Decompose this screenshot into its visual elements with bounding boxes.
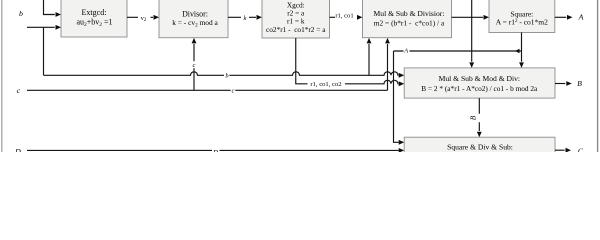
svg-text:c: c	[17, 86, 21, 95]
wire c up into Mul & Sub & Divisior	[387, 44, 389, 90]
svg-text:Extgcd:: Extgcd:	[82, 8, 107, 17]
svg-text:B = 2 * (a*r1 - A*co2) / co1 -: B = 2 * (a*r1 - A*co2) / co1 - b mod 2a	[421, 84, 538, 93]
svg-text:Mul & Sub & Mod & Div:: Mul & Sub & Mod & Div:	[439, 74, 520, 83]
svg-text:r1, co1, co2: r1, co1, co2	[310, 81, 341, 88]
box U5 Square	[489, 0, 555, 32]
wire r1 co1 from Xgcd to Mul & Sub & Divisior	[330, 16, 336, 18]
svg-text:D: D	[14, 147, 21, 152]
wire m2 from Mul & Sub & Divisior to Square	[452, 16, 484, 18]
wire D bus into Square & Div & Sub	[27, 149, 399, 151]
svg-text:v2: v2	[141, 15, 147, 23]
wire A feedback branch left	[394, 50, 522, 52]
svg-text:c: c	[232, 89, 235, 95]
wire k from Divisor to Xgcd	[228, 16, 256, 18]
svg-text:b: b	[19, 9, 23, 18]
wire A down to Square & Div & Sub	[394, 51, 399, 142]
wire c up into Divisor	[193, 44, 195, 90]
svg-text:co2*r1 - co1*r2 = a: co2*r1 - co1*r2 = a	[266, 25, 326, 34]
wire c bus horizontal	[27, 89, 388, 91]
wire b up into Mul & Sub & Divisior	[368, 44, 370, 75]
svg-text:B: B	[577, 79, 582, 88]
svg-text:D: D	[212, 149, 218, 152]
wire a from top into Mul & Sub & Mod & Div	[471, 0, 473, 62]
frame left border	[1, 0, 3, 152]
svg-text:B: B	[470, 115, 478, 120]
wire A output of Square	[555, 16, 567, 18]
wire r1 co1 co2 from Xgcd down to Mul & Sub & Mod & Div	[296, 38, 399, 84]
svg-text:k: k	[244, 15, 247, 22]
wire b branch down to b bus	[43, 27, 45, 75]
svg-text:au2+bv2 =1: au2+bv2 =1	[76, 18, 112, 29]
box U6 Mul & Sub & Mod & Div	[404, 68, 555, 98]
box U1 Extgcd	[61, 0, 127, 37]
svg-text:A = r12 - co1*m2: A = r12 - co1*m2	[496, 17, 548, 26]
wire b from top into Extgcd	[44, 0, 55, 15]
frame right border	[597, 0, 599, 152]
svg-text:r1, co1: r1, co1	[335, 13, 353, 20]
svg-text:C = (B*B - D) / (4*A): C = (B*B - D) / (4*A)	[446, 150, 514, 152]
wire B output of Mul & Sub & Mod & Div	[555, 83, 565, 85]
svg-text:A: A	[578, 13, 584, 22]
svg-text:C: C	[578, 147, 584, 152]
svg-text:b: b	[225, 72, 229, 79]
box U7 Square & Div & Sub	[404, 137, 555, 153]
wire v2 from Extgcd to Divisor	[127, 16, 153, 18]
svg-text:Mul & Sub & Divisior:: Mul & Sub & Divisior:	[374, 9, 445, 18]
wire C output of Square & Div & Sub	[555, 149, 565, 151]
box U2 Divisor	[159, 0, 228, 38]
wire second input into Extgcd	[27, 26, 55, 28]
wire A feedback down from Square into Mul & Sub & Mod & Div	[521, 33, 523, 62]
box U3 Xgcd	[262, 0, 330, 38]
svg-text:m2 = (b*r1 - c*co1) / a: m2 = (b*r1 - c*co1) / a	[374, 19, 445, 28]
svg-text:c: c	[193, 62, 196, 69]
wire b bus horizontal with hops	[44, 72, 399, 75]
svg-text:A: A	[403, 49, 408, 55]
box U4 Mul & Sub & Divisior	[363, 0, 452, 38]
wire B down from Mul & Sub & Mod & Div to Square & Div & Sub	[478, 98, 480, 131]
